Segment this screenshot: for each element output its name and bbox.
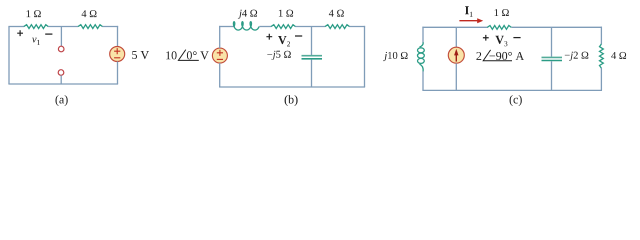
label 1 ohm (a) (27, 10, 41, 17)
wire: (c) top right segment (512, 26, 603, 28)
label -j5 ohm (267, 51, 291, 60)
label + of V2 (266, 34, 272, 40)
inductor j4 (b) (233, 22, 259, 30)
label minus of V3 (513, 37, 520, 39)
label 4 ohm (a) (82, 10, 97, 17)
wire: (a) top left segment (8, 26, 24, 28)
wire: (a) right edge lower (117, 61, 119, 84)
label -90deg A of source (c) (490, 52, 525, 60)
wire: (a) top right segment (102, 26, 118, 28)
label v1 (32, 38, 40, 45)
plus mark of source (b) (217, 50, 223, 56)
wire: (a) bottom (8, 83, 118, 85)
wire: (b) top right segment (349, 26, 365, 28)
resistor 1ohm (c) (487, 26, 511, 30)
wire: (b) top corner to inductor (219, 26, 235, 28)
wire: (b) bottom (219, 86, 365, 88)
wire: (a) top between R1 and port stub (48, 26, 78, 28)
label 1 ohm (c) (495, 9, 509, 16)
current source arrow (455, 54, 457, 62)
label j4 ohm (238, 10, 257, 19)
label + of V3 (483, 35, 489, 41)
resistor 4ohm (c) vertical (600, 44, 604, 68)
capacitor -j2 lower plate (542, 60, 563, 62)
resistor R2 4ohm (a) (78, 25, 103, 29)
label (b) (285, 95, 298, 106)
voltage source (b) circle (212, 48, 227, 63)
wire: (b) capacitor branch lower (311, 60, 313, 87)
angle symbol of source (b) (178, 50, 198, 61)
capacitor -j5 (b) lower plate (302, 58, 323, 60)
plus mark of 5V source (114, 48, 120, 54)
label 4 ohm (b) (329, 10, 344, 17)
wire: (c) right edge upper (600, 27, 602, 45)
label + of v1 (17, 30, 23, 36)
terminal upper port circle (58, 46, 64, 52)
wire: (b) left edge upper (219, 26, 221, 48)
wire: current source branch lower (455, 63, 457, 90)
label 4 ohm (c) (611, 52, 626, 59)
wire: (a) left edge (8, 27, 10, 85)
minus mark of source (b) (217, 58, 223, 60)
wire: (b) capacitor branch upper (311, 27, 313, 56)
wire: (b) node segment (295, 26, 325, 28)
resistor 1ohm (b) (271, 25, 296, 29)
label (a) (56, 95, 68, 106)
wire: (c) left edge upper (422, 27, 424, 43)
wire: (a) port stub lower (60, 75, 62, 84)
voltage source 5V circle (110, 47, 125, 62)
wire: (c) right edge lower (600, 68, 602, 90)
label (c) (510, 95, 522, 106)
label minus of v1 (45, 33, 52, 35)
label 1 ohm (b) (279, 10, 293, 17)
label V2 (278, 36, 290, 46)
capacitor -j2 upper plate (542, 56, 563, 58)
wire: (b) right edge (364, 26, 366, 87)
inductor j10 (c) (418, 42, 425, 71)
angle symbol of source (c) (483, 50, 512, 61)
label j10 ohm (383, 52, 407, 61)
wire: (c) top left segment (422, 26, 487, 28)
label minus of V2 (295, 35, 302, 37)
wire: (b) inductor to R 1ohm (259, 26, 271, 28)
label -j2 ohm (565, 52, 589, 61)
wire: (c) left edge lower (422, 71, 424, 90)
capacitor -j5 (b) upper plate (302, 55, 323, 57)
wire: (c) capacitor branch lower (551, 61, 553, 90)
label I1 (465, 6, 473, 16)
current source 2A circle (448, 47, 464, 63)
label 5 V (132, 51, 149, 59)
wire: (a) port stub upper (60, 27, 62, 47)
wire: (a) right edge upper (117, 26, 119, 47)
resistor 4ohm (b) (325, 25, 350, 29)
wire: (b) left edge lower (219, 63, 221, 87)
label 2 of source (c) (476, 52, 481, 60)
minus mark of 5V source (114, 57, 120, 59)
wire: (c) bottom (422, 89, 602, 91)
label 0deg V of source (b) (187, 51, 209, 59)
label V3 (495, 36, 507, 47)
terminal lower port circle (58, 70, 64, 76)
wire: (c) capacitor branch upper (551, 27, 553, 56)
wire: current source branch upper (455, 27, 457, 47)
resistor R1 1ohm (a) (24, 25, 49, 29)
label 10 of source (b) (166, 51, 176, 59)
arrow I1 (459, 20, 477, 22)
